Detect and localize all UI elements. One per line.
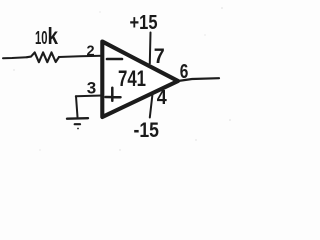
- wire: input lead to resistor: [3, 57, 27, 58]
- resistor R1 (10k): [27, 52, 59, 62]
- wire: non-inverting input to ground: [76, 95, 102, 98]
- op-amp U1 triangle: [102, 42, 178, 118]
- wire: +15 to pin 7: [149, 33, 152, 64]
- inverting input minus sign: [107, 58, 122, 61]
- wire: output from pin 6: [178, 78, 219, 81]
- non-inverting input plus sign: [106, 88, 121, 101]
- svg-text:3: 3: [87, 79, 96, 98]
- wire: resistor to inverting input: [59, 56, 102, 57]
- ground dot: [77, 128, 79, 130]
- svg-text:7: 7: [154, 45, 165, 68]
- paper speckles: [13, 7, 231, 151]
- wire: pin 4 to -15: [150, 94, 153, 118]
- svg-text:4: 4: [157, 87, 168, 109]
- svg-text:10: 10: [35, 28, 48, 48]
- svg-text:741: 741: [118, 66, 146, 91]
- svg-text:k: k: [48, 23, 59, 49]
- svg-text:-15: -15: [134, 119, 160, 142]
- ground: [67, 96, 88, 124]
- svg-text:+15: +15: [130, 11, 158, 34]
- svg-text:2: 2: [87, 44, 95, 60]
